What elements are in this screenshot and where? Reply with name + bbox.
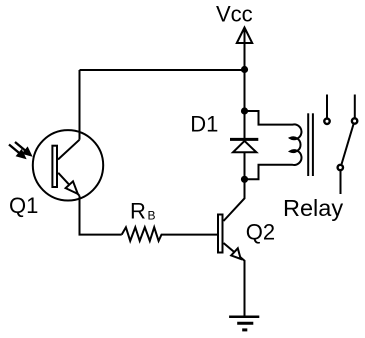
svg-text:Relay: Relay (283, 195, 343, 221)
svg-text:Q1: Q1 (9, 193, 38, 218)
svg-text:Q2: Q2 (246, 220, 275, 245)
svg-text:R: R (130, 199, 146, 224)
svg-text:B: B (148, 209, 156, 223)
svg-text:Vcc: Vcc (216, 1, 253, 26)
svg-text:D1: D1 (190, 112, 218, 137)
